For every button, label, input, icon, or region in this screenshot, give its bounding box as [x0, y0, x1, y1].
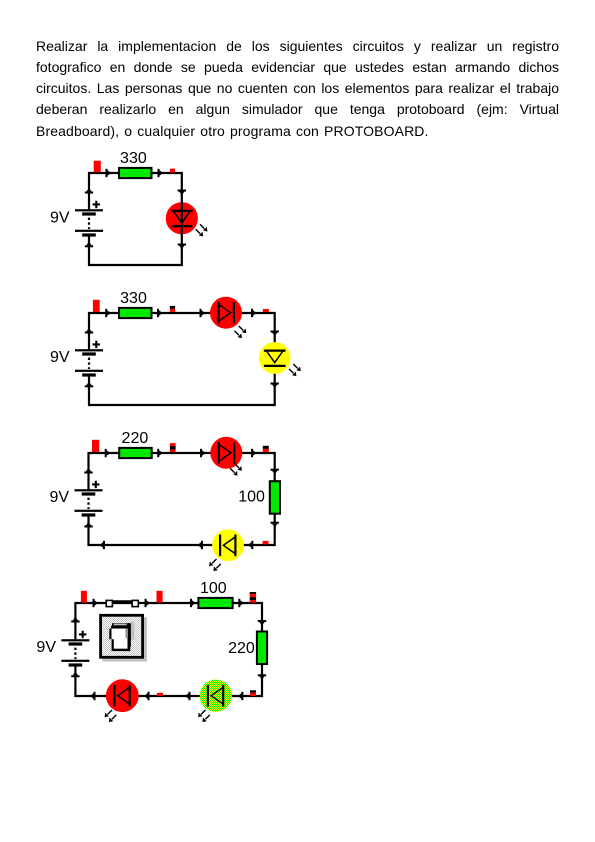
voltage tick black-red after R2	[170, 306, 175, 312]
LED D2 red symbol	[219, 302, 234, 324]
current arrow right wire below R6	[258, 674, 266, 680]
current arrow bottom wire 3	[144, 692, 150, 700]
voltage tick red-black-red after R3	[170, 443, 176, 452]
current arrow top wire 1	[105, 309, 111, 317]
LED D2 light emission arrows	[235, 326, 247, 338]
voltage tick black-red near top-right corner	[263, 446, 269, 452]
current arrow top wire right	[158, 169, 164, 177]
LED D3 yellow body	[259, 342, 291, 374]
current arrow top wire 2	[157, 309, 163, 317]
voltage tick striped black-red near top-right	[250, 592, 256, 603]
current arrow left wire above battery	[71, 617, 79, 623]
current arrow left wire below battery	[71, 672, 79, 678]
svg-text:9V: 9V	[50, 210, 70, 227]
switch SW1 closed blade	[112, 600, 132, 602]
LED D1 light emission arrows	[196, 224, 208, 236]
LED D6 red body	[106, 679, 139, 712]
switch SW1 contact square left	[106, 600, 112, 606]
LED D2 red body	[210, 297, 242, 329]
current arrow top wire 4	[238, 599, 244, 607]
voltage tick red near top-right corner	[263, 309, 269, 312]
svg-text:100: 100	[238, 489, 265, 506]
LED D7 green symbol	[208, 685, 223, 707]
CIRCUIT3	[50, 430, 280, 571]
LED D3 yellow symbol	[264, 351, 286, 366]
current arrow left wire above battery	[84, 468, 92, 474]
LED D4 red body	[210, 437, 242, 469]
LED D6 red symbol	[114, 685, 129, 707]
voltage tick red small after R1	[170, 169, 175, 173]
current arrow bottom wire 1	[248, 541, 254, 549]
current arrow left wire below battery	[84, 522, 92, 528]
current arrow left wire below battery	[85, 382, 93, 388]
current arrow right wire upper	[178, 190, 186, 196]
current arrow bottom wire 1	[238, 692, 244, 700]
battery B4 9V	[61, 631, 89, 667]
LED D5 light emission arrows	[209, 559, 221, 571]
current arrow left wire below battery	[85, 242, 93, 248]
current arrow top wire 4	[251, 449, 257, 457]
LED D5 yellow body	[212, 529, 244, 561]
current arrow bottom wire 3	[100, 541, 106, 549]
current arrow top wire left	[106, 169, 112, 177]
current arrow left wire above battery	[85, 328, 93, 334]
voltage tick red top-left	[92, 440, 99, 452]
LED D6 light emission arrows	[105, 710, 117, 722]
current arrow top wire 2	[145, 599, 151, 607]
wire circuit-4 loop	[75, 603, 262, 696]
svg-text:330: 330	[120, 290, 147, 307]
current arrow top wire 2	[157, 449, 163, 457]
LED D7 light emission arrows	[198, 710, 210, 722]
CIRCUIT2	[50, 290, 301, 405]
svg-text:220: 220	[122, 430, 149, 447]
current arrow right wire lower	[271, 383, 279, 389]
voltage tick red bottom-right	[263, 541, 269, 544]
switch SW1 body box	[101, 615, 143, 657]
current arrow right wire above R6	[258, 620, 266, 626]
current arrow right wire above R4	[271, 469, 279, 475]
battery B1 9V	[75, 201, 103, 237]
svg-text:220: 220	[228, 640, 255, 657]
current arrow bottom wire 2	[185, 692, 191, 700]
svg-text:100: 100	[200, 580, 227, 597]
current arrow right wire below R4	[271, 522, 279, 528]
current arrow bottom wire 4	[90, 692, 96, 700]
LED D4 red symbol	[219, 442, 234, 464]
current arrow right wire lower	[178, 244, 186, 250]
current arrow bottom wire 2	[198, 541, 204, 549]
voltage tick red top-left	[93, 300, 100, 312]
resistor R6 220	[257, 632, 267, 665]
current arrow top wire 3	[200, 449, 206, 457]
current arrow top wire 1	[93, 599, 99, 607]
resistor R5 100	[198, 598, 232, 608]
wire circuit-2 loop	[89, 313, 275, 405]
LED D1 red body	[166, 202, 198, 234]
wire circuit-3 loop	[89, 453, 275, 545]
voltage tick red top-left	[94, 161, 101, 173]
svg-text:330: 330	[120, 150, 147, 167]
resistor R4 100	[270, 481, 280, 514]
svg-text:9V: 9V	[50, 349, 70, 366]
LED D7 green body	[200, 680, 232, 712]
LED D3 light emission arrows	[289, 364, 301, 376]
switch SW1 rocker graphic	[109, 622, 134, 652]
LED D1 red symbol	[171, 211, 193, 226]
current arrow top wire 3	[200, 309, 206, 317]
CIRCUIT4	[36, 580, 267, 722]
current arrow left wire above battery	[85, 188, 93, 194]
current arrow right wire upper	[271, 331, 279, 337]
resistor R3 220	[119, 448, 152, 458]
LED D5 yellow symbol	[220, 535, 235, 557]
current arrow top wire 4	[251, 309, 257, 317]
resistor R1 330	[119, 168, 152, 178]
svg-text:9V: 9V	[36, 639, 56, 656]
switch SW1 body shadow	[103, 617, 148, 661]
voltage tick red after switch	[157, 591, 163, 603]
svg-text:9V: 9V	[50, 489, 70, 506]
LED D4 light emission arrows	[230, 464, 242, 476]
wire circuit-1 loop	[89, 173, 182, 265]
resistor R2 330	[119, 308, 152, 318]
switch SW1 contact square right	[132, 600, 138, 606]
current arrow top wire 3	[190, 599, 196, 607]
voltage tick red bottom middle	[157, 693, 163, 696]
voltage tick red top-left	[81, 591, 87, 603]
battery B2 9V	[75, 341, 103, 377]
voltage tick black-red bottom-right	[250, 690, 256, 696]
current arrow top wire 1	[105, 449, 111, 457]
battery B3 9V	[75, 481, 103, 517]
CIRCUIT1	[50, 150, 207, 265]
